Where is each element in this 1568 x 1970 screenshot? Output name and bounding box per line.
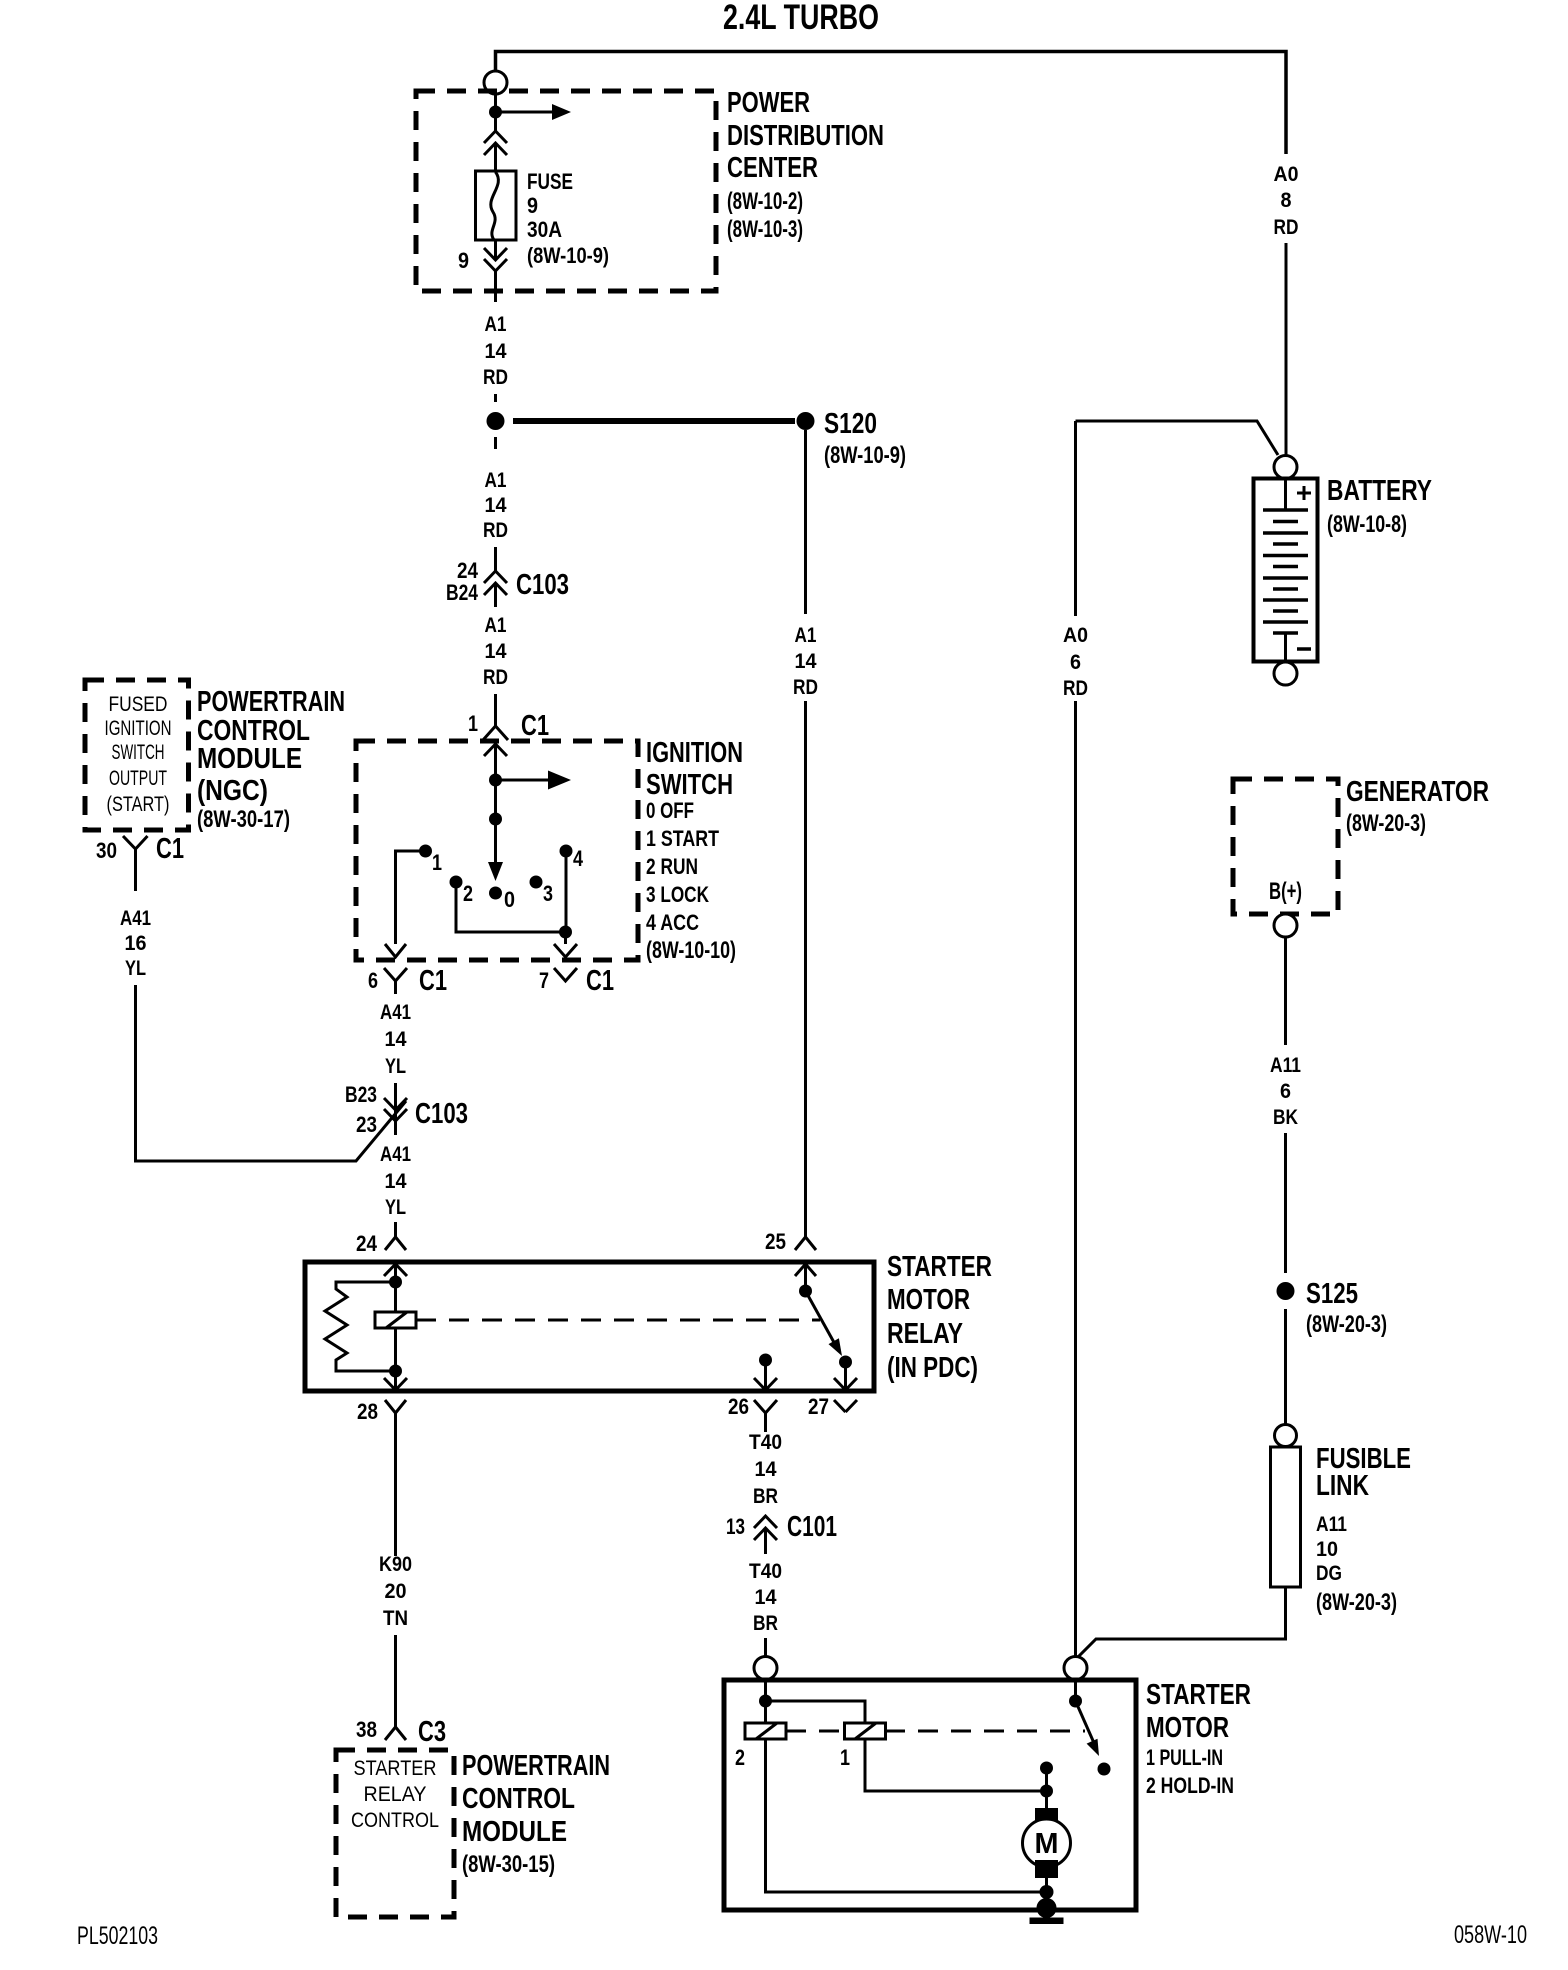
svg-text:YL: YL [385, 1055, 406, 1078]
connector relay pin 26 [754, 1400, 777, 1413]
svg-text:SWITCH: SWITCH [112, 741, 165, 764]
svg-text:(8W-10-2): (8W-10-2) [727, 188, 803, 215]
wire pin 26 stub [764, 1360, 767, 1390]
svg-text:9: 9 [527, 193, 538, 218]
svg-text:8: 8 [1281, 189, 1292, 212]
connector relay pin 25 [795, 1237, 816, 1250]
pin 24 chevron inside relay [384, 1264, 407, 1276]
wire relay coil leg [394, 1264, 397, 1390]
resistor across relay coil [325, 1282, 396, 1371]
svg-text:(8W-20-3): (8W-20-3) [1316, 1589, 1397, 1616]
node battery positive terminal circle [1274, 456, 1297, 479]
svg-text:A11: A11 [1316, 1513, 1347, 1536]
node generator terminal circle [1274, 914, 1297, 937]
svg-text:C1: C1 [586, 965, 614, 997]
svg-text:14: 14 [485, 640, 507, 663]
node S120 dot [797, 412, 815, 430]
svg-text:C101: C101 [787, 1511, 837, 1543]
wire pull-in coil to motor feed [865, 1739, 1047, 1791]
svg-text:K90: K90 [379, 1553, 412, 1576]
svg-text:S120: S120 [824, 408, 877, 440]
svg-text:TN: TN [383, 1607, 408, 1630]
svg-text:M: M [1035, 1828, 1059, 1860]
wire A0 6 upper [1074, 421, 1077, 616]
wire fuse to pin 9 [494, 240, 497, 260]
node PDC terminal circle [484, 71, 507, 94]
svg-text:CONTROL: CONTROL [462, 1783, 575, 1815]
svg-text:C103: C103 [415, 1098, 468, 1130]
svg-text:23: 23 [356, 1112, 377, 1137]
svg-text:0: 0 [504, 887, 515, 912]
node relay pin 27 contact dot [839, 1356, 852, 1369]
svg-text:14: 14 [485, 340, 507, 363]
svg-text:RELAY: RELAY [887, 1318, 963, 1350]
svg-text:BR: BR [753, 1485, 778, 1508]
svg-text:(8W-10-8): (8W-10-8) [1327, 511, 1407, 538]
dashed link coils to contact [786, 1730, 1085, 1733]
svg-text:C1: C1 [419, 965, 447, 997]
svg-text:1 START: 1 START [646, 826, 719, 851]
svg-text:T40: T40 [749, 1431, 782, 1454]
svg-text:CENTER: CENTER [727, 152, 818, 184]
battery plus sign [1297, 486, 1311, 500]
svg-text:MOTOR: MOTOR [1146, 1712, 1229, 1744]
svg-text:B24: B24 [446, 580, 479, 605]
pin 9 chevrons [484, 248, 507, 271]
relay coil symbol [375, 1312, 416, 1328]
svg-text:(8W-20-3): (8W-20-3) [1306, 1311, 1387, 1338]
node motor feed dot [1040, 1785, 1053, 1798]
svg-text:BATTERY: BATTERY [1327, 475, 1432, 507]
node battery negative terminal circle [1274, 662, 1297, 685]
wire ignition common [494, 745, 497, 864]
connector C1 pin 7 [554, 968, 577, 981]
wire to pin7 arrow [564, 932, 567, 944]
node starter motor terminal circle right [1064, 1657, 1087, 1680]
svg-text:GENERATOR: GENERATOR [1346, 776, 1489, 808]
svg-text:10: 10 [1316, 1538, 1338, 1561]
svg-text:RD: RD [1274, 216, 1299, 239]
svg-text:14: 14 [755, 1586, 777, 1609]
svg-text:(8W-10-3): (8W-10-3) [727, 216, 803, 243]
node fusible link terminal circle [1275, 1425, 1297, 1447]
node relay coil bottom dot [389, 1365, 402, 1378]
svg-text:DG: DG [1316, 1562, 1342, 1585]
node rotor dot top [489, 774, 502, 787]
svg-text:RD: RD [793, 676, 818, 699]
svg-text:A1: A1 [485, 614, 507, 637]
svg-text:2: 2 [463, 881, 473, 906]
rotor arrow down head [488, 862, 503, 881]
svg-text:3: 3 [543, 881, 553, 906]
svg-text:OUTPUT: OUTPUT [109, 767, 167, 790]
svg-text:POWERTRAIN: POWERTRAIN [462, 1750, 610, 1782]
svg-text:0 OFF: 0 OFF [646, 798, 694, 823]
wire dash below S120 [494, 437, 497, 449]
dashed link relay coil to arm [416, 1319, 820, 1322]
wire to starter terminal [764, 1638, 767, 1657]
svg-text:RD: RD [483, 519, 508, 542]
node rotor dot mid [489, 813, 502, 826]
svg-text:CONTROL: CONTROL [351, 1809, 439, 1832]
battery cell plates [1263, 510, 1308, 622]
node position 3 dot [530, 876, 543, 889]
svg-text:6: 6 [1070, 651, 1081, 674]
connector C103 pin B23/23 [394, 1083, 397, 1135]
svg-text:(IN PDC): (IN PDC) [887, 1352, 978, 1384]
node position 0 dot [489, 887, 502, 900]
svg-text:30: 30 [96, 838, 117, 863]
node relay coil top dot [389, 1276, 402, 1289]
svg-text:PL502103: PL502103 [77, 1922, 158, 1950]
wire pin25 to arm pivot [804, 1264, 807, 1291]
node junction dot pin7 branch [559, 926, 572, 939]
svg-text:1: 1 [432, 850, 442, 875]
svg-text:30A: 30A [527, 217, 562, 242]
svg-text:16: 16 [125, 932, 147, 955]
pin 28 chevron inside relay [384, 1378, 407, 1390]
ground dot on case [1037, 1898, 1057, 1918]
svg-text:(8W-10-9): (8W-10-9) [824, 442, 906, 469]
hold-in coil 2 [745, 1723, 786, 1739]
svg-text:IGNITION: IGNITION [105, 717, 172, 740]
svg-text:MODULE: MODULE [197, 743, 302, 775]
connector C1 pin 1 [483, 726, 508, 740]
svg-text:(8W-30-17): (8W-30-17) [197, 806, 290, 833]
svg-text:MODULE: MODULE [462, 1816, 567, 1848]
node S120 junction dot left [487, 412, 505, 430]
svg-text:RD: RD [1063, 677, 1088, 700]
node solenoid arm pivot dot [1069, 1695, 1082, 1708]
svg-text:SWITCH: SWITCH [646, 769, 733, 801]
svg-text:DISTRIBUTION: DISTRIBUTION [727, 120, 884, 152]
svg-text:C1: C1 [156, 833, 184, 865]
svg-text:FUSE: FUSE [527, 169, 573, 194]
connector C101 pin 13 [754, 1516, 777, 1540]
wire pin 27 stub [844, 1362, 847, 1390]
wire position4 drop [565, 851, 568, 932]
pin 1 chevron inside ignition switch [484, 744, 507, 756]
svg-text:C3: C3 [418, 1716, 446, 1748]
svg-text:BK: BK [1273, 1106, 1298, 1129]
svg-text:FUSED: FUSED [109, 693, 168, 716]
wire left terminal into box [764, 1680, 767, 1723]
solenoid switch arm [1076, 1701, 1095, 1743]
svg-text:28: 28 [357, 1399, 378, 1424]
wire to S125 [1284, 1133, 1287, 1273]
battery B1 body [1254, 479, 1318, 662]
svg-text:STARTER: STARTER [887, 1251, 992, 1283]
svg-text:058W-10: 058W-10 [1454, 1921, 1527, 1949]
svg-text:(8W-30-15): (8W-30-15) [462, 1851, 555, 1878]
svg-text:20: 20 [385, 1580, 407, 1603]
wire into PDC [494, 94, 497, 131]
wire contact to motor junction [1045, 1768, 1048, 1809]
connector relay pin 27 [834, 1400, 857, 1412]
svg-text:14: 14 [385, 1170, 407, 1193]
connector C1 pin 30 [123, 836, 148, 849]
svg-text:27: 27 [808, 1394, 829, 1419]
svg-text:RELAY: RELAY [364, 1783, 427, 1806]
PCM fused ignition switch output dashed box [85, 680, 189, 830]
wire right terminal into box [1074, 1680, 1077, 1701]
svg-text:2: 2 [735, 1745, 745, 1770]
fuse F9 body [476, 171, 517, 240]
wire PCM pin30 to C103 [136, 985, 407, 1161]
node solenoid contact dot [1098, 1763, 1111, 1776]
svg-text:2.4L TURBO: 2.4L TURBO [723, 0, 879, 37]
svg-text:A1: A1 [485, 313, 507, 336]
relay switch arm [806, 1291, 837, 1346]
svg-text:A41: A41 [380, 1143, 411, 1166]
svg-text:13: 13 [726, 1514, 745, 1539]
PCM starter relay control dashed box [336, 1750, 454, 1917]
node motor return dot [1040, 1885, 1054, 1899]
svg-text:POWER: POWER [727, 87, 810, 119]
wire pin 28 to C3 [394, 1432, 397, 1556]
svg-text:14: 14 [485, 494, 507, 517]
svg-text:1 PULL-IN: 1 PULL-IN [1146, 1745, 1223, 1770]
wire A0 8 to battery [1285, 243, 1288, 456]
node position 1 dot [419, 845, 432, 858]
node junction dot in PDC [489, 106, 502, 119]
svg-text:T40: T40 [749, 1560, 782, 1583]
battery minus sign [1297, 647, 1311, 651]
svg-text:1: 1 [468, 711, 478, 736]
svg-text:1: 1 [840, 1745, 850, 1770]
wire position1 to pin6 [396, 851, 426, 944]
svg-text:2 HOLD-IN: 2 HOLD-IN [1146, 1773, 1234, 1798]
svg-text:A0: A0 [1274, 163, 1299, 186]
node S125 splice dot [1277, 1282, 1295, 1300]
wire S120 splice run [513, 418, 795, 424]
svg-text:B(+): B(+) [1269, 878, 1302, 905]
svg-text:A1: A1 [795, 624, 817, 647]
svg-text:LINK: LINK [1316, 1470, 1369, 1502]
svg-text:A41: A41 [120, 907, 151, 930]
node position 2 dot [450, 876, 463, 889]
svg-text:A0: A0 [1063, 624, 1088, 647]
motor M1 body [1023, 1819, 1071, 1867]
svg-text:26: 26 [728, 1394, 749, 1419]
connector C1 pin 6 [384, 968, 407, 981]
node position 4 dot [560, 845, 573, 858]
connector C103 pin 24/B24 [484, 571, 507, 595]
wire chevrons to fuse [494, 144, 497, 171]
svg-text:C103: C103 [516, 569, 569, 601]
wire PDC exit [494, 271, 497, 302]
connector chevrons above fuse [484, 131, 507, 155]
node relay arm pivot dot [799, 1285, 812, 1298]
motor M1 bottom terminal [1035, 1860, 1058, 1878]
wire fusible link to starter [1078, 1587, 1286, 1657]
svg-text:S125: S125 [1306, 1278, 1358, 1310]
svg-text:POWERTRAIN: POWERTRAIN [197, 686, 345, 718]
connector relay pin 24 [394, 1222, 397, 1237]
wire to pull-in coil [766, 1701, 866, 1723]
wire feed-out arrow [496, 111, 554, 114]
wire S120 to relay pin 25 [804, 430, 807, 614]
node hold-in feed dot [759, 1695, 772, 1708]
generator dashed box [1233, 779, 1338, 914]
wire dash above S120 [494, 394, 497, 402]
starter motor box [724, 1680, 1136, 1910]
wire battery feed top run [496, 52, 1287, 155]
svg-text:3 LOCK: 3 LOCK [646, 882, 709, 907]
connector relay pin 28 [385, 1400, 406, 1413]
svg-text:A41: A41 [380, 1001, 411, 1024]
svg-text:7: 7 [539, 968, 549, 993]
node motor contact upper dot [1040, 1762, 1053, 1775]
svg-text:RD: RD [483, 366, 508, 389]
wire generator to S125 [1284, 937, 1287, 1045]
svg-text:14: 14 [795, 650, 817, 673]
wire to C1 [494, 694, 497, 726]
svg-text:4 ACC: 4 ACC [646, 910, 699, 935]
wire to C103 [494, 547, 497, 571]
wire battery to A0 6 branch [1076, 421, 1279, 455]
svg-text:24: 24 [356, 1231, 378, 1256]
svg-text:RD: RD [483, 666, 508, 689]
node relay pin 26 dot [759, 1354, 772, 1367]
wire motor to ground [1045, 1878, 1048, 1910]
wire rotor arrow right [496, 779, 551, 782]
svg-text:14: 14 [755, 1458, 777, 1481]
svg-text:YL: YL [125, 957, 146, 980]
motor M1 top terminal [1035, 1808, 1058, 1827]
wire hold-in coil return [766, 1739, 1047, 1892]
wire down to pin 38 [394, 1635, 397, 1727]
svg-text:38: 38 [356, 1717, 377, 1742]
svg-text:4: 4 [573, 846, 584, 871]
svg-text:2 RUN: 2 RUN [646, 854, 698, 879]
svg-text:(START): (START) [107, 793, 170, 816]
connector C3 pin 38 [385, 1727, 406, 1740]
svg-text:BR: BR [753, 1612, 778, 1635]
svg-text:YL: YL [385, 1196, 406, 1219]
svg-text:MOTOR: MOTOR [887, 1284, 970, 1316]
starter motor relay box [305, 1262, 874, 1391]
svg-text:STARTER: STARTER [354, 1757, 437, 1780]
pin 25 chevron inside relay [795, 1264, 816, 1276]
svg-text:6: 6 [368, 968, 378, 993]
svg-text:IGNITION: IGNITION [646, 737, 743, 769]
svg-text:A1: A1 [485, 469, 507, 492]
wire position2 run [456, 882, 566, 932]
svg-text:(8W-10-10): (8W-10-10) [646, 937, 736, 964]
wire A0 6 lower [1074, 701, 1077, 1657]
svg-text:STARTER: STARTER [1146, 1679, 1251, 1711]
svg-text:14: 14 [385, 1028, 407, 1051]
ground bar [1030, 1918, 1064, 1925]
fusible link body [1271, 1447, 1301, 1587]
node starter motor terminal circle left [754, 1657, 777, 1680]
svg-text:(NGC): (NGC) [197, 775, 268, 807]
svg-text:(8W-10-9): (8W-10-9) [527, 243, 609, 268]
svg-text:9: 9 [458, 248, 469, 273]
wire down to pin 25 [804, 701, 807, 1237]
svg-text:A11: A11 [1270, 1054, 1301, 1077]
svg-text:B23: B23 [345, 1082, 377, 1107]
ignition switch dashed box [356, 741, 638, 960]
svg-text:25: 25 [765, 1229, 786, 1254]
svg-text:C1: C1 [521, 710, 549, 742]
pull-in coil 1 [845, 1723, 886, 1739]
svg-text:(8W-20-3): (8W-20-3) [1346, 810, 1426, 837]
svg-text:6: 6 [1280, 1080, 1291, 1103]
power distribution center dashed box [416, 91, 716, 291]
